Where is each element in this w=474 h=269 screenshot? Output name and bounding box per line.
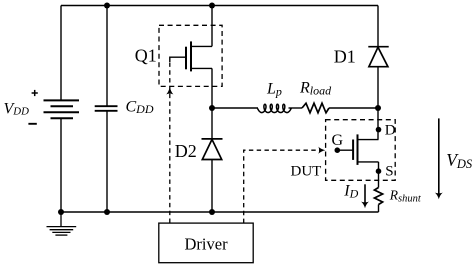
svg-text:D: D (385, 123, 396, 139)
dashed box around Q1 (159, 25, 222, 86)
svg-text:ID: ID (343, 183, 358, 201)
node G pin dot of DUT (335, 147, 341, 153)
diode D2 (202, 139, 223, 160)
node dot top rail / Q1 drain (209, 3, 215, 9)
arrowhead of VDS arrow (435, 193, 443, 200)
svg-text:S: S (385, 163, 393, 179)
wire left branch down to battery (60, 6, 62, 101)
node dot bottom rail / CDD (104, 209, 110, 215)
capacitor CDD (95, 106, 118, 111)
label plus (32, 90, 38, 96)
arrowhead of Q1 gate drive (166, 87, 173, 95)
svg-text:G: G (332, 132, 344, 149)
resistor Rload (302, 103, 329, 113)
node D pin dot of DUT (376, 127, 382, 133)
wire battery to bottom rail (60, 118, 62, 212)
svg-text:VDS: VDS (446, 150, 473, 171)
svg-text:Rload: Rload (299, 80, 332, 98)
wire between Lp and Rload (289, 107, 303, 109)
node dot top rail / CDD (104, 3, 110, 9)
diode D1 (368, 47, 388, 67)
transistor DUT (337, 134, 378, 165)
wire dashed gate drive to DUT (244, 150, 321, 223)
transistor Q1 (170, 41, 212, 71)
svg-text:CDD: CDD (126, 99, 154, 117)
wire mid rail left (212, 107, 258, 109)
driver box (159, 223, 253, 263)
wire DUT drain (377, 108, 379, 140)
node dot bottom rail / ground (58, 209, 64, 215)
wire Rshunt to bottom rail (378, 205, 380, 213)
svg-text:D2: D2 (175, 141, 197, 161)
battery VDD (44, 100, 80, 118)
arrowhead of DUT gate drive (318, 147, 325, 154)
wire CDD branch bottom (106, 111, 108, 212)
node dot mid rail / Q1 source / D2 (209, 105, 215, 111)
arrowhead of ID arrow (361, 202, 369, 209)
node dot bottom rail / D2 (209, 209, 215, 215)
inductor Lp (258, 104, 292, 112)
svg-text:VDD: VDD (4, 101, 30, 118)
svg-text:Rshunt: Rshunt (389, 187, 422, 204)
svg-text:Driver: Driver (185, 234, 229, 253)
arrow ID measurement (364, 184, 366, 204)
arrow VDS measurement (438, 118, 440, 196)
svg-text:D1: D1 (334, 47, 356, 67)
wire D2 bottom (211, 160, 213, 213)
label minus (28, 123, 36, 125)
wire mid rail right (329, 107, 378, 109)
ground (47, 212, 77, 235)
wire CDD branch top (106, 6, 108, 107)
node dot mid rail / D1 / DUT drain (375, 105, 381, 111)
wire D1 top from rail (377, 6, 379, 47)
resistor Rshunt (374, 188, 382, 205)
wire D2 top (211, 108, 213, 139)
wire Q1 source to mid node (211, 68, 213, 108)
wire DUT source to Rshunt (378, 162, 380, 188)
svg-text:Q1: Q1 (135, 46, 157, 66)
node S pin dot of DUT (376, 168, 382, 174)
dashed box around DUT (326, 120, 396, 181)
wire D1 bottom to mid node (377, 67, 379, 108)
wire Q1 drain from top rail (211, 6, 213, 47)
svg-text:DUT: DUT (291, 164, 322, 180)
wire top rail (61, 5, 378, 7)
wire bottom rail (61, 211, 379, 213)
wire dashed gate drive to Q1 (169, 63, 171, 224)
svg-text:Lp: Lp (266, 81, 282, 99)
